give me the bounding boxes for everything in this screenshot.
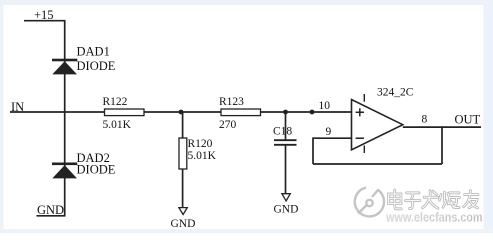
svg-text:8: 8 xyxy=(422,114,428,126)
svg-text:5.01K: 5.01K xyxy=(103,119,132,131)
svg-text:C18: C18 xyxy=(273,126,292,138)
net +15 label xyxy=(34,8,54,22)
wire feedback left vertical xyxy=(312,137,314,164)
wire C18 branch upper xyxy=(285,112,287,140)
node junction pin10 xyxy=(310,110,315,115)
node junction at C18 xyxy=(283,110,288,115)
capacitor C18 xyxy=(274,140,297,145)
svg-text:R120: R120 xyxy=(188,138,213,150)
resistor R120 xyxy=(179,138,187,169)
svg-text:DAD1: DAD1 xyxy=(77,45,110,59)
ground arrow under R120 xyxy=(179,208,187,215)
wire output xyxy=(403,126,481,128)
svg-text:R122: R122 xyxy=(103,96,128,108)
wire GND underline xyxy=(37,215,66,217)
ground arrow under C18 xyxy=(282,194,290,201)
svg-text:OUT: OUT xyxy=(455,113,481,127)
svg-text:DIODE: DIODE xyxy=(77,59,116,73)
wire main horizontal net xyxy=(10,111,352,113)
wire pin 9 input xyxy=(313,137,352,139)
diode DAD1 xyxy=(52,59,77,75)
svg-text:GND: GND xyxy=(37,203,64,217)
wire feedback right vertical xyxy=(441,126,443,164)
wire feedback bottom xyxy=(313,163,442,165)
resistor R123 xyxy=(221,109,261,116)
svg-text:DIODE: DIODE xyxy=(77,163,116,177)
wire vertical branch from +15 through diodes to GND xyxy=(64,21,66,216)
diode DAD2 xyxy=(52,163,77,179)
svg-text:R123: R123 xyxy=(219,96,244,108)
svg-text:324_2C: 324_2C xyxy=(377,87,414,99)
svg-text:5.01K: 5.01K xyxy=(188,150,217,162)
watermark logo circle xyxy=(355,188,384,217)
node junction at R120 xyxy=(179,110,184,115)
svg-text:www.elecfans.com: www.elecfans.com xyxy=(385,210,481,224)
wire +15 rail underline xyxy=(24,20,66,22)
wire C18 branch lower xyxy=(285,145,287,194)
svg-text:10: 10 xyxy=(319,100,331,112)
svg-text:270: 270 xyxy=(219,119,237,131)
resistor R122 xyxy=(105,109,145,116)
svg-text:GND: GND xyxy=(171,218,196,230)
svg-text:GND: GND xyxy=(274,204,299,216)
svg-text:9: 9 xyxy=(326,126,332,138)
wire R120 branch xyxy=(182,112,184,208)
op-amp U 324_2C xyxy=(352,94,403,153)
